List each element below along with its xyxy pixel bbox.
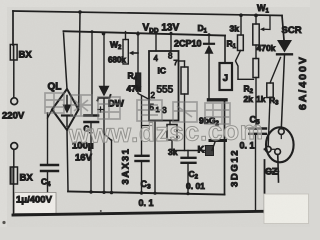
fuse BX (upper) [10, 45, 17, 61]
wire CZ left lead down to bottom rail [264, 149, 267, 213]
resistor 3k on pin 3 [169, 121, 171, 125]
resistor R2 2k [255, 45, 257, 59]
bridge rectifier QL [52, 89, 79, 130]
wire QL top vertex to VDD rail [64, 33, 68, 89]
relay J [224, 36, 226, 64]
wire ground rail [68, 192, 225, 195]
fuse BX (lower) [10, 167, 17, 184]
zener diode DW [102, 32, 106, 36]
resistor R1 3k [239, 13, 243, 17]
wire base node to BG2 [172, 150, 212, 152]
transistor BG1 3AX31 [105, 135, 112, 141]
resistor R5 (pin 7) [179, 60, 185, 62]
wire D1 to relay J bottom [209, 98, 227, 101]
wire QL left vertex to C4 [48, 110, 53, 119]
capacitor C3 0.1 [141, 97, 143, 155]
wire top rail down to QL right vertex [79, 12, 80, 108]
node junction on top rail [78, 10, 82, 14]
wire VDD inner rail [64, 31, 226, 35]
resistor R3 1k [270, 58, 281, 84]
wire pin 4 to rail [155, 31, 158, 34]
wire pin 8 to rail [170, 32, 173, 35]
thyristor SCR 6A/400V [282, 16, 284, 41]
wire left from top rail to fuse [12, 11, 14, 45]
wire terminal to fuse 2 [13, 149, 15, 167]
potentiometer W2 680k [125, 32, 127, 40]
wire bottom rail (220V N) [13, 211, 262, 215]
socket CZ [266, 127, 294, 162]
resistor R4 47k [136, 32, 140, 36]
label box 1u/400V [15, 193, 57, 214]
wire top rail (220V L) [13, 11, 282, 16]
capacitor C2 0.01 [187, 151, 189, 157]
node terminal L [11, 98, 18, 105]
capacitor C1 100u 16V [91, 30, 94, 33]
wire pin 1 down to ground rail [154, 121, 156, 194]
op-amp U1 555 timer IC [149, 51, 179, 121]
capacitor C4 1u/400V [47, 113, 49, 164]
wire QL bottom vertex to ground rail [67, 130, 68, 190]
capacitor C5 0.1 [250, 127, 267, 129]
wire fuse 2 down to bottom rail [13, 184, 15, 213]
potentiometer W1 470k [254, 14, 258, 18]
diode D1 2CP10 [208, 33, 211, 36]
node terminal N [11, 143, 18, 150]
wire CZ bottom lead [277, 155, 280, 183]
wire fuse to terminal [13, 60, 15, 98]
